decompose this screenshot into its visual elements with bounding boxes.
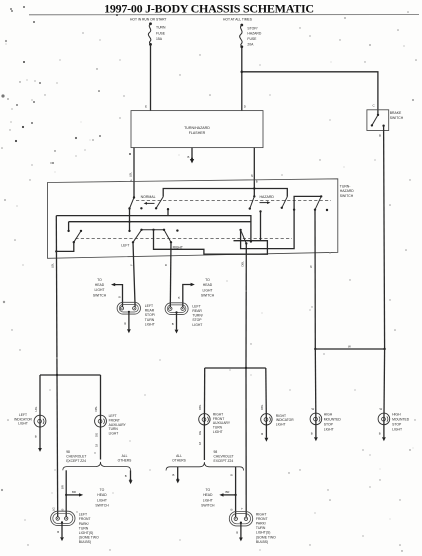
high mounted stop light 1: [310, 413, 322, 425]
svg-text:FUSE: FUSE: [247, 37, 257, 41]
svg-text:DBL: DBL: [94, 406, 98, 412]
svg-text:B: B: [172, 322, 174, 326]
svg-text:FLASHER: FLASHER: [189, 131, 206, 135]
node split left: [56, 374, 58, 376]
svg-text:TURN: TURN: [109, 427, 119, 431]
svg-text:HOT IN RUN OR START: HOT IN RUN OR START: [130, 17, 166, 21]
svg-text:18: 18: [198, 441, 202, 445]
brake switch S1: [367, 110, 404, 349]
lamp DS1 left rear stop/turn: [117, 302, 140, 314]
svg-text:LIGHT: LIGHT: [276, 423, 286, 427]
right group: [166, 367, 294, 544]
svg-text:98: 98: [214, 450, 218, 454]
svg-text:DBL: DBL: [260, 404, 264, 410]
svg-text:PARK/: PARK/: [256, 522, 266, 526]
svg-text:W: W: [312, 407, 315, 411]
svg-text:MOUNTED: MOUNTED: [392, 418, 410, 422]
turn hazard switch S2 box: [48, 179, 355, 375]
svg-text:SWITCH: SWITCH: [93, 293, 107, 297]
svg-text:B: B: [177, 297, 181, 299]
wire arrow to headlight switch (left pointing): [222, 494, 236, 496]
normal arm 2: [156, 197, 163, 209]
wire chevrolet branch right: [235, 467, 237, 517]
ground left indicator: [39, 427, 41, 448]
svg-text:W: W: [348, 345, 351, 349]
svg-text:98: 98: [66, 450, 70, 454]
high mounted stop light 2: [378, 413, 390, 425]
svg-text:TURN: TURN: [213, 426, 223, 430]
wire flasher left output: [133, 148, 135, 198]
brace split left: [63, 462, 131, 470]
svg-text:TURN: TURN: [79, 526, 89, 530]
svg-text:B: B: [379, 134, 381, 138]
wire arrow to headlight switch: [66, 494, 81, 496]
svg-text:D: D: [244, 105, 247, 109]
indicator light left: [34, 415, 46, 427]
svg-text:B: B: [230, 509, 234, 511]
svg-text:EXCEPT Z24: EXCEPT Z24: [66, 459, 86, 463]
svg-text:TURN: TURN: [156, 26, 166, 30]
ground stop light 2: [383, 425, 385, 438]
wire pin stop feed: [314, 210, 316, 349]
wire pin to left rear lamp: [133, 242, 135, 306]
svg-text:RIGHT: RIGHT: [256, 512, 267, 516]
svg-text:FRONT: FRONT: [79, 517, 91, 521]
svg-text:W: W: [309, 265, 313, 268]
wire lower rail: [69, 222, 251, 242]
svg-text:BR: BR: [60, 485, 64, 489]
svg-text:LEFT: LEFT: [121, 244, 129, 248]
lamp DS4 right front park/turn: [229, 512, 252, 526]
svg-text:B: B: [230, 474, 234, 476]
svg-text:HIGH: HIGH: [392, 413, 401, 417]
svg-text:AUXILIARY: AUXILIARY: [109, 423, 127, 427]
wire to right indicator: [265, 368, 268, 425]
svg-text:B: B: [261, 432, 263, 436]
svg-text:SWITCH: SWITCH: [201, 504, 215, 508]
svg-text:NORMAL: NORMAL: [141, 195, 156, 199]
node junction to brake switch: [241, 71, 244, 74]
svg-text:C: C: [373, 104, 376, 108]
svg-text:B: B: [311, 432, 313, 436]
svg-text:TO: TO: [97, 278, 102, 282]
svg-text:B: B: [256, 180, 258, 184]
svg-text:TURN: TURN: [145, 318, 155, 322]
wire brake switch down: [384, 126, 385, 349]
svg-text:HEAD: HEAD: [95, 283, 105, 287]
svg-text:LIGHT: LIGHT: [213, 430, 223, 434]
svg-text:DG: DG: [94, 433, 98, 437]
svg-text:(SOME TWO: (SOME TWO: [79, 536, 99, 540]
svg-text:Y: Y: [240, 508, 244, 510]
svg-text:LEFT: LEFT: [109, 414, 117, 418]
ground right front lamp: [240, 522, 242, 524]
wire elbow to headlight switch (left rear): [113, 285, 123, 307]
hazard arm 1: [253, 195, 255, 197]
wire arm to feed: [56, 242, 74, 251]
stop group: [310, 345, 410, 442]
node split right: [245, 367, 247, 369]
svg-text:HIGH: HIGH: [324, 413, 333, 417]
wire mid rail: [56, 216, 251, 222]
svg-text:B: B: [124, 322, 126, 326]
svg-text:20A: 20A: [247, 43, 254, 47]
title: [29, 2, 419, 16]
svg-text:HAZARD: HAZARD: [247, 32, 261, 36]
wire fuse F2 to flasher: [241, 47, 243, 111]
svg-text:LIGHT: LIGHT: [145, 322, 155, 326]
svg-text:ALL: ALL: [176, 454, 182, 458]
turn/hazard flasher U1: [129, 111, 264, 198]
svg-text:LIGHT: LIGHT: [97, 498, 107, 502]
node normal pivot: [133, 196, 135, 198]
lamp DS3 left front park/turn: [51, 511, 75, 525]
svg-text:HEAD: HEAD: [203, 283, 213, 287]
ground right indicator: [265, 425, 267, 438]
svg-text:STOP/: STOP/: [247, 26, 257, 30]
svg-text:B: B: [188, 155, 190, 159]
node stop junction left: [314, 348, 316, 350]
svg-text:LIGHT: LIGHT: [203, 288, 213, 292]
wire aux down to brace: [100, 427, 102, 460]
svg-text:HEAD: HEAD: [97, 493, 107, 497]
right turn arm: [239, 229, 241, 231]
svg-text:PARK/: PARK/: [79, 522, 89, 526]
svg-text:CHEVROLET: CHEVROLET: [214, 455, 234, 459]
wire wiper tap: [154, 230, 268, 254]
svg-text:HOT AT ALL TIMES: HOT AT ALL TIMES: [223, 17, 253, 21]
svg-text:LIGHT(S): LIGHT(S): [79, 531, 94, 535]
svg-text:STOP: STOP: [392, 423, 402, 427]
svg-text:Y: Y: [129, 264, 133, 266]
top wiring: [145, 44, 378, 115]
wire to right aux: [203, 368, 205, 425]
svg-text:B: B: [236, 530, 238, 534]
svg-text:DBL: DBL: [241, 261, 245, 267]
svg-text:MOUNTED: MOUNTED: [324, 418, 342, 422]
svg-text:B: B: [118, 296, 122, 298]
svg-text:TURN-: TURN-: [340, 185, 351, 189]
svg-text:SWITCH: SWITCH: [340, 194, 354, 198]
node with stub: [167, 208, 169, 210]
svg-text:TURN: TURN: [256, 526, 266, 530]
normal arm 1: [130, 198, 135, 209]
svg-text:LIGHT: LIGHT: [95, 288, 105, 292]
svg-text:STOP: STOP: [192, 318, 202, 322]
svg-text:LBL: LBL: [129, 172, 133, 177]
wire into brake switch handled above; contact arm: [377, 114, 379, 116]
svg-text:OTHERS: OTHERS: [172, 459, 187, 463]
left turn arm: [80, 230, 82, 232]
svg-text:A: A: [130, 179, 132, 183]
svg-text:RIGHT: RIGHT: [276, 414, 286, 418]
node feed junction: [253, 187, 255, 189]
svg-text:FUSE: FUSE: [156, 31, 166, 35]
svg-text:FRONT: FRONT: [109, 418, 120, 422]
svg-text:15A: 15A: [156, 37, 163, 41]
hazard arm 2: [282, 197, 288, 208]
svg-text:TO: TO: [205, 278, 210, 282]
svg-text:B: B: [60, 509, 64, 511]
fuse F1 TURN 15A: [130, 17, 262, 48]
svg-text:B: B: [379, 432, 381, 436]
svg-text:HAZARD: HAZARD: [340, 189, 354, 193]
wire right arm feed: [241, 210, 295, 249]
wire main right feed down: [245, 368, 247, 517]
ground left front lamp: [61, 521, 63, 523]
wire to left indicator: [39, 375, 41, 427]
ground second lamp: [175, 311, 177, 313]
svg-text:BRAKE: BRAKE: [390, 111, 402, 115]
wire pin to right rear lamp: [169, 242, 172, 307]
svg-text:W: W: [380, 407, 383, 411]
wire to stop light 2: [383, 349, 386, 425]
indicator light right: [261, 414, 272, 425]
svg-text:SWITCH: SWITCH: [201, 294, 215, 298]
svg-text:1997-00 J-BODY CHASSIS SCHEMAT: 1997-00 J-BODY CHASSIS SCHEMATIC: [104, 2, 314, 16]
svg-text:BR: BR: [226, 490, 230, 494]
wire hazard rail 2: [294, 196, 321, 209]
all others stub: [177, 467, 179, 479]
aux turn light right: [199, 414, 210, 425]
svg-text:DBL: DBL: [198, 404, 202, 410]
node spare contact: [326, 209, 328, 211]
svg-text:LIGHT(S): LIGHT(S): [256, 531, 271, 535]
svg-text:(SOME TWO: (SOME TWO: [256, 535, 276, 539]
wire pin left feed long: [55, 216, 58, 375]
svg-text:CHEVROLET: CHEVROLET: [66, 455, 86, 459]
wire chevrolet branch: [65, 470, 67, 517]
ground stop light 1: [315, 425, 317, 438]
svg-text:LG: LG: [51, 507, 55, 511]
wire hazard tap: [260, 211, 262, 240]
svg-text:TURN/HAZARD: TURN/HAZARD: [184, 126, 210, 130]
svg-text:18: 18: [94, 443, 98, 447]
svg-text:DG: DG: [198, 431, 202, 435]
svg-text:B: B: [173, 473, 175, 477]
hazard arm 3: [320, 195, 322, 197]
lamp DS2 left rear turn/stop: [165, 303, 188, 315]
svg-text:LEFT: LEFT: [192, 304, 200, 308]
node stop junction right: [383, 348, 385, 350]
svg-text:AUXILIARY: AUXILIARY: [213, 421, 231, 425]
svg-text:LEFT: LEFT: [79, 513, 87, 517]
wire elbow to headlight switch (second lamp): [183, 285, 193, 308]
svg-text:OTHERS: OTHERS: [118, 459, 133, 463]
svg-text:HEAD: HEAD: [203, 493, 213, 497]
svg-text:LIGHT: LIGHT: [18, 422, 28, 426]
all others stub: [130, 470, 132, 479]
svg-text:TURN/: TURN/: [192, 314, 202, 318]
svg-text:LBL: LBL: [34, 406, 38, 411]
svg-text:BULBS): BULBS): [79, 540, 91, 544]
ground left rear lamp: [128, 311, 130, 313]
svg-text:REAR: REAR: [145, 309, 155, 313]
svg-text:STOP: STOP: [324, 423, 334, 427]
dashed linkage row2: [75, 238, 292, 240]
dashed linkage row1: [136, 199, 331, 201]
aux turn light left: [95, 415, 107, 427]
svg-text:B: B: [35, 435, 37, 439]
svg-text:SWITCH: SWITCH: [95, 504, 109, 508]
wire flasher right output: [253, 148, 255, 197]
svg-text:LIGHT: LIGHT: [324, 428, 334, 432]
svg-text:INDICATOR: INDICATOR: [276, 418, 294, 422]
wire stop crossover: [315, 348, 384, 350]
svg-text:W: W: [250, 174, 254, 177]
svg-text:LBL: LBL: [51, 263, 55, 268]
svg-text:B: B: [57, 530, 59, 534]
svg-text:REAR: REAR: [192, 309, 202, 313]
svg-text:SWITCH: SWITCH: [390, 116, 404, 120]
svg-text:E: E: [145, 105, 147, 109]
svg-text:LIGHT: LIGHT: [192, 323, 202, 327]
ground flasher: [191, 148, 193, 159]
svg-text:BR: BR: [72, 490, 76, 494]
svg-text:LIGHT: LIGHT: [392, 428, 402, 432]
wire junction to brake switch: [242, 72, 378, 115]
svg-text:B: B: [125, 474, 127, 478]
wire pin right front feed: [245, 244, 247, 369]
svg-text:FRONT: FRONT: [213, 417, 224, 421]
svg-text:FRONT: FRONT: [256, 517, 268, 521]
wire fuse F1 to flasher: [150, 44, 152, 110]
svg-text:ALL: ALL: [122, 454, 128, 458]
svg-text:BULBS): BULBS): [256, 540, 268, 544]
wire to left aux: [100, 375, 102, 427]
svg-text:STOP/: STOP/: [145, 313, 155, 317]
arrow right under HAZARD: [260, 202, 269, 204]
svg-text:TO: TO: [100, 488, 105, 492]
svg-text:LEFT: LEFT: [145, 304, 153, 308]
wiper trapezoid: [133, 230, 171, 243]
wire to stop light 1: [314, 349, 317, 425]
wire split horizontal: [40, 374, 101, 376]
left group: [14, 374, 132, 544]
rear lamps: [93, 278, 215, 334]
wire split horizontal: [205, 367, 266, 369]
svg-text:HAZARD: HAZARD: [260, 195, 275, 199]
wire aux down to brace: [203, 425, 205, 460]
node contact: [140, 207, 142, 209]
wire main left feed down: [56, 375, 59, 517]
arrow left under NORMAL: [146, 202, 155, 204]
wire upper rail: [163, 189, 287, 197]
svg-text:EXCEPT Z24: EXCEPT Z24: [214, 459, 234, 463]
wire normal feed drop: [129, 209, 131, 231]
svg-text:RIGHT: RIGHT: [213, 412, 223, 416]
svg-text:TO: TO: [205, 488, 210, 492]
svg-text:LIGHT: LIGHT: [109, 432, 119, 436]
brace split right: [166, 462, 244, 470]
svg-text:B: B: [164, 264, 168, 266]
svg-text:LIGHT: LIGHT: [203, 498, 213, 502]
